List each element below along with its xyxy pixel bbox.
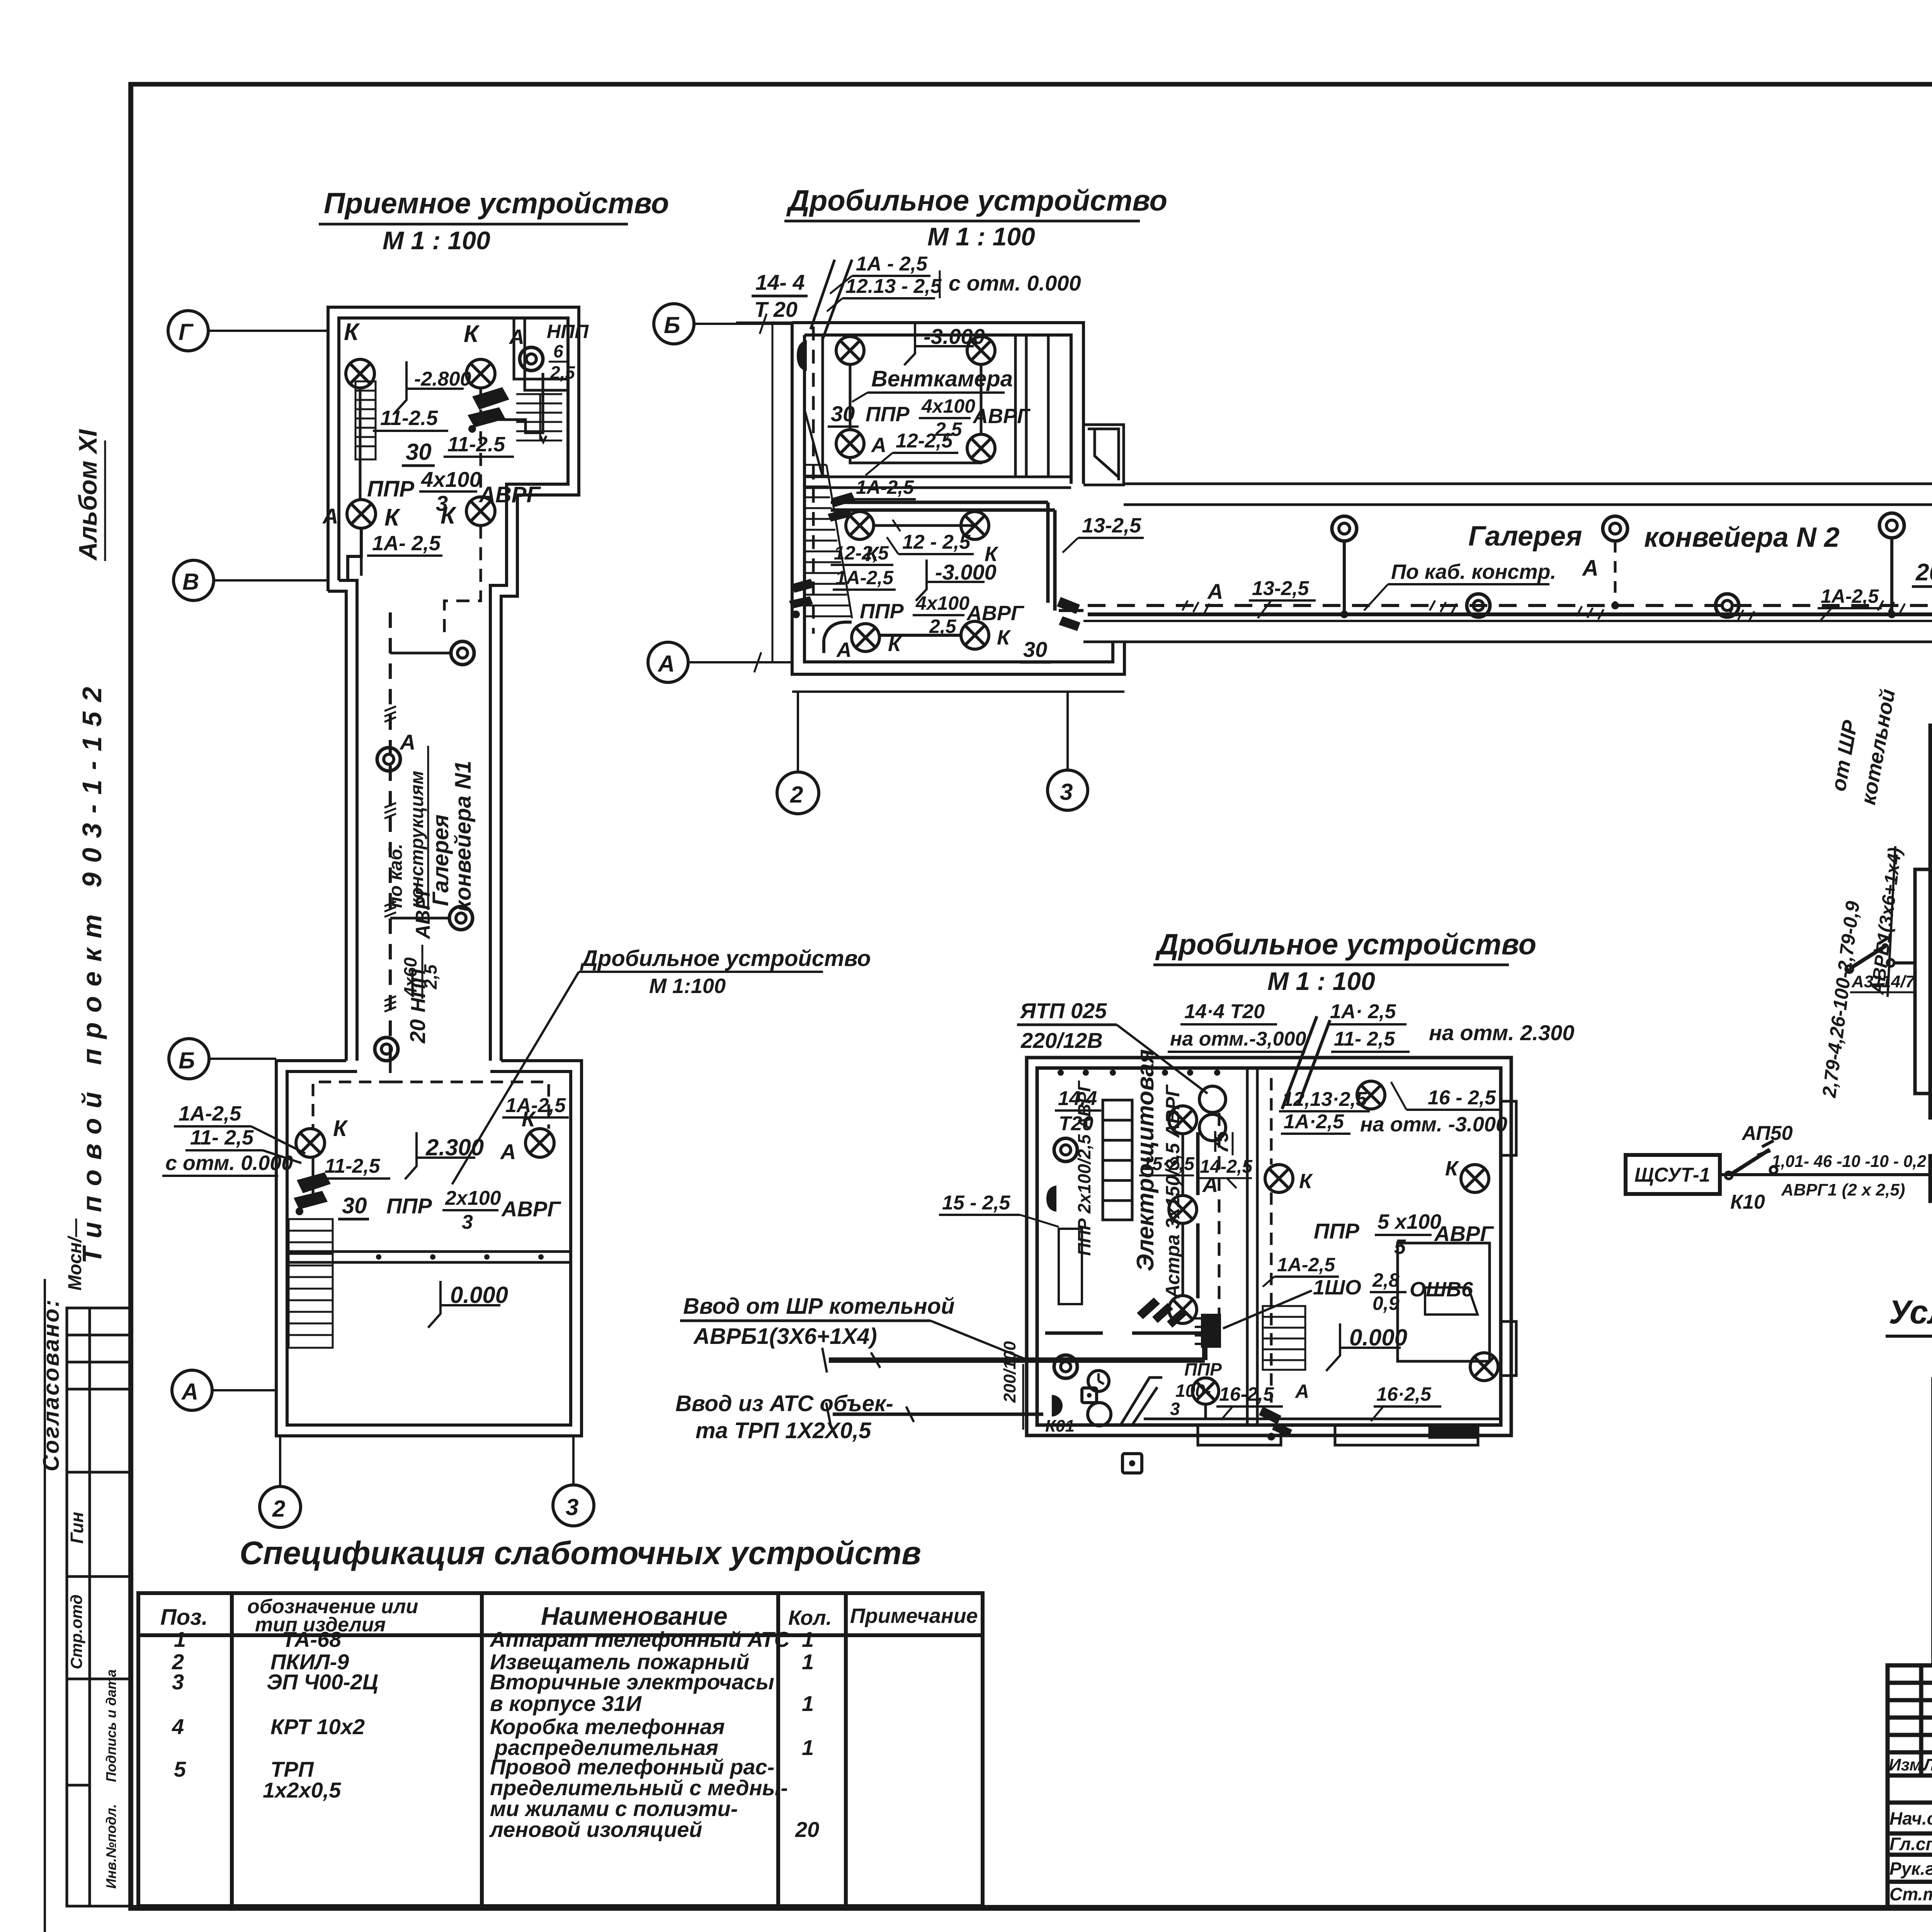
svg-text:16-2,5: 16-2,5 xyxy=(1219,1383,1274,1405)
svg-text:30: 30 xyxy=(342,1193,367,1218)
lamp K lower-right xyxy=(466,497,495,526)
svg-text:16·2,5: 16·2,5 xyxy=(1376,1383,1432,1405)
wire switch scribbles bottom xyxy=(1259,1406,1292,1440)
node window right wall 1 xyxy=(1501,1101,1516,1376)
wire entry diagonals xyxy=(811,260,852,340)
node elevation -3.000 lower xyxy=(916,560,997,601)
svg-text:20: 20 xyxy=(1915,559,1932,586)
svg-text:Б: Б xyxy=(179,1048,195,1073)
svg-text:4х100: 4х100 xyxy=(421,467,481,492)
svg-text:1: 1 xyxy=(802,1627,814,1651)
svg-text:М 1 : 100: М 1 : 100 xyxy=(927,222,1035,251)
svg-text:16 - 2,5: 16 - 2,5 xyxy=(1428,1087,1496,1109)
svg-text:Примечание: Примечание xyxy=(850,1604,978,1628)
node dimension line Б-А xyxy=(772,324,774,662)
lamp K upper-left xyxy=(346,359,374,388)
node elevation -3.000 top xyxy=(904,323,985,365)
wall gallery bottom lines xyxy=(1083,620,1932,622)
wire switch scribbles left room xyxy=(1137,1298,1187,1328)
svg-text:1,01- 46 -10 -10 - 0,2: 1,01- 46 -10 -10 - 0,2 xyxy=(1772,1152,1927,1171)
svg-text:11-2.5: 11-2.5 xyxy=(447,433,505,456)
node square symbol below xyxy=(1122,1454,1142,1473)
wall lower interior floor xyxy=(287,1252,571,1262)
node label ЯТП 025 220/12В xyxy=(1017,998,1207,1094)
svg-text:АВРГ: АВРГ xyxy=(501,1197,561,1221)
svg-text:А: А xyxy=(500,1139,516,1164)
svg-text:А: А xyxy=(871,434,886,457)
panel schedule 1ЩО xyxy=(1626,665,1932,1213)
wire top border xyxy=(128,82,1932,87)
lamp device 3 xyxy=(449,906,473,930)
wire switch scribbles xyxy=(468,387,509,433)
svg-text:Наименование: Наименование xyxy=(541,1602,728,1630)
wire leader top labels xyxy=(830,276,852,294)
svg-text:А: А xyxy=(1207,579,1223,604)
svg-text:М 1 : 100: М 1 : 100 xyxy=(1267,967,1375,995)
svg-text:Инв.№подл.: Инв.№подл. xyxy=(103,1804,119,1889)
left margin annotations xyxy=(39,429,131,1932)
plan 3: Дробильное устройство center xyxy=(675,928,1574,1473)
svg-text:Галерея: Галерея xyxy=(1468,521,1582,552)
stamp boxes column xyxy=(67,1308,131,1906)
wire riser dashed left xyxy=(812,327,815,634)
wire dashed riser right xyxy=(480,388,482,497)
svg-text:Подпись и дата: Подпись и дата xyxy=(103,1669,119,1782)
wall lower building outer xyxy=(276,1061,582,1436)
lamp left room 1 xyxy=(1169,1106,1197,1134)
node column 3 xyxy=(553,1436,594,1526)
svg-text:М 1:100: М 1:100 xyxy=(649,975,726,998)
svg-text:Спецификация слаботочных: Спецификация слаботочных устройств xyxy=(240,1535,921,1571)
svg-text:5: 5 xyxy=(1394,1235,1406,1259)
node label 14-4 Т20 xyxy=(736,270,808,323)
svg-text:11-2.5: 11-2.5 xyxy=(380,406,438,430)
wall plan2 outer xyxy=(792,323,1124,674)
svg-text:1А-2,5: 1А-2,5 xyxy=(505,1094,566,1117)
node clock symbol xyxy=(1088,1371,1109,1391)
node door openings bottom xyxy=(1198,1425,1478,1445)
node label 1ШО 2,8/0,9 ОШВ6 xyxy=(1313,1269,1473,1314)
svg-text:А: А xyxy=(836,638,852,662)
gallery N1 vertical xyxy=(346,612,501,1061)
svg-text:Нач.отд.: Нач.отд. xyxy=(1889,1808,1932,1828)
svg-text:1А-2,5: 1А-2,5 xyxy=(1821,585,1879,607)
lamp bottom 3 xyxy=(1192,1378,1219,1404)
svg-text:14- 4: 14- 4 xyxy=(755,270,805,294)
svg-text:К: К xyxy=(1299,1170,1313,1193)
svg-text:1: 1 xyxy=(802,1650,814,1674)
svg-text:К: К xyxy=(464,321,480,347)
node circle device xyxy=(1088,1403,1111,1426)
svg-text:11- 2,5: 11- 2,5 xyxy=(190,1126,254,1149)
panel электрощитовая cells xyxy=(1103,1100,1132,1220)
svg-text:12-2,5: 12-2,5 xyxy=(896,430,953,452)
svg-text:Гл.спец.: Гл.спец. xyxy=(1889,1834,1932,1854)
lamp K left xyxy=(296,1129,325,1157)
svg-text:2,79-4,26-100-2,79-0,9: 2,79-4,26-100-2,79-0,9 xyxy=(1818,900,1864,1099)
svg-text:К10: К10 xyxy=(1730,1191,1765,1213)
node column Б xyxy=(169,1039,276,1079)
svg-text:1А-2,5: 1А-2,5 xyxy=(856,476,914,498)
node column Г xyxy=(168,311,328,351)
svg-text:4х60: 4х60 xyxy=(400,957,420,997)
svg-text:АВРГ1 (2 х 2,5): АВРГ1 (2 х 2,5) xyxy=(1781,1180,1905,1199)
node fire detector symbol xyxy=(1082,1388,1097,1403)
wire bottom right run xyxy=(1325,1418,1499,1420)
node label ППР 4х100/2,5 АВРГ lower xyxy=(860,592,1051,662)
wall plan3 outer xyxy=(1027,1058,1511,1435)
svg-text:2: 2 xyxy=(272,1496,285,1522)
wire from ЩСУТ-1 to row 11А xyxy=(1720,1122,1930,1213)
svg-text:НПП: НПП xyxy=(547,321,589,342)
svg-text:1А- 2,5: 1А- 2,5 xyxy=(372,532,441,555)
svg-text:та ТРП 1Х2Х0,5: та ТРП 1Х2Х0,5 xyxy=(696,1418,871,1443)
svg-text:14·4 Т20: 14·4 Т20 xyxy=(1184,1000,1265,1023)
svg-text:1х2х0,5: 1х2х0,5 xyxy=(263,1778,341,1802)
wall gallery top lines xyxy=(1124,483,1932,485)
svg-text:1ШО: 1ШО xyxy=(1313,1276,1361,1299)
svg-text:Дробильное устройство: Дробильное устройство xyxy=(580,946,871,971)
svg-text:1: 1 xyxy=(802,1691,814,1716)
node phone symbol black xyxy=(1052,1395,1063,1417)
wire dashed риser xyxy=(1218,1113,1221,1329)
wire lower jog xyxy=(360,556,363,576)
wire lamp run left solid xyxy=(359,388,362,500)
svg-text:А: А xyxy=(181,1379,198,1405)
lamp K right xyxy=(526,1129,554,1157)
svg-text:3: 3 xyxy=(172,1670,184,1694)
wire exit scribble xyxy=(1057,597,1080,631)
plan 1: Приемное устройство xyxy=(319,187,669,641)
breaker А3114/7 switch symbol xyxy=(1846,937,1917,992)
stairs plan3 xyxy=(1263,1306,1305,1370)
svg-text:3: 3 xyxy=(566,1494,578,1520)
node column 2 plan2 xyxy=(777,692,819,814)
svg-text:Поз.: Поз. xyxy=(160,1605,208,1630)
svg-text:К: К xyxy=(997,626,1011,649)
wire callout to ЩО xyxy=(1223,1291,1312,1328)
wire to НПП xyxy=(498,373,543,433)
svg-text:Венткамера: Венткамера xyxy=(871,366,1013,391)
svg-text:Ст.техн.: Ст.техн. xyxy=(1889,1884,1932,1904)
node callout Дробильное устройство xyxy=(452,946,871,1184)
spec header xyxy=(160,1595,978,1636)
node label 20 НПП 10х60/2,5 АВРГ xyxy=(1912,553,1932,599)
svg-text:Б: Б xyxy=(664,312,680,338)
node label ППР 4х100/3 АВРГ xyxy=(367,467,541,515)
node label 14-4Т20 на отм -3000 xyxy=(1168,1000,1306,1052)
node elevation -2.800 xyxy=(395,361,471,413)
node column 3 plan2 xyxy=(1048,692,1088,810)
svg-text:Лист: Лист xyxy=(1922,1755,1932,1774)
wire hash marks xyxy=(384,706,396,1012)
svg-text:котельной: котельной xyxy=(1857,687,1900,806)
svg-text:А: А xyxy=(399,730,415,754)
wire lower bottom run xyxy=(824,622,961,653)
svg-text:ППР: ППР xyxy=(1314,1219,1360,1243)
svg-text:2: 2 xyxy=(790,782,803,808)
svg-text:2х100: 2х100 xyxy=(445,1187,501,1209)
svg-text:-2.800: -2.800 xyxy=(414,368,471,390)
svg-text:Дробильное устройство: Дробильное устройство xyxy=(786,184,1167,217)
spec grid xyxy=(138,1593,983,1906)
panel ЩСУТ-1 box xyxy=(1626,1155,1720,1194)
lamp lower SE xyxy=(961,621,989,649)
wall footprint bottom line xyxy=(792,690,1124,693)
lamp venткамера NW xyxy=(836,337,864,364)
svg-text:12.13 - 2,5: 12.13 - 2,5 xyxy=(845,275,942,298)
wire gallery cable solid xyxy=(1088,612,1932,616)
svg-text:Альбом XI: Альбом XI xyxy=(73,429,102,561)
svg-text:15 - 2,5: 15 - 2,5 xyxy=(942,1192,1010,1214)
svg-text:11-2,5: 11-2,5 xyxy=(325,1155,381,1177)
wall gallery left xyxy=(345,641,348,1061)
gallery N2 horizontal xyxy=(1083,484,1932,642)
panel ЩО black xyxy=(1195,1314,1221,1348)
wire gallery cable dashed xyxy=(1088,604,1932,607)
stairs plan2 left xyxy=(804,410,852,618)
lamp device double circle xyxy=(1054,1355,1077,1378)
svg-text:Гин: Гин xyxy=(67,1512,87,1544)
svg-text:12,13·2,5: 12,13·2,5 xyxy=(1282,1088,1367,1111)
wall upper building partition НПП room xyxy=(514,318,568,390)
switch symbol АП50 xyxy=(1730,1150,1770,1175)
svg-text:2,5: 2,5 xyxy=(550,362,575,383)
svg-text:А: А xyxy=(1294,1381,1309,1402)
wall door chamfer xyxy=(1121,1378,1162,1425)
svg-text:2,5: 2,5 xyxy=(420,964,440,990)
wall upper building outer xyxy=(328,307,579,641)
svg-text:К: К xyxy=(1445,1157,1459,1180)
legend table xyxy=(1886,1294,1932,1665)
node small rect left room xyxy=(1059,1229,1082,1304)
schedule grid xyxy=(1930,726,1932,1117)
svg-text:Кол.: Кол. xyxy=(788,1606,832,1629)
wire lamp run left lower xyxy=(348,528,361,580)
svg-text:75: 75 xyxy=(1210,1131,1233,1153)
node column Б plan2 xyxy=(654,304,792,344)
lower building Дробильное xyxy=(162,1061,582,1436)
svg-text:К: К xyxy=(384,504,401,531)
svg-text:1А·2,5: 1А·2,5 xyxy=(1284,1111,1344,1133)
svg-text:ЯТП 025: ЯТП 025 xyxy=(1019,998,1107,1023)
svg-text:Рук.гр.: Рук.гр. xyxy=(1889,1859,1932,1879)
wire ATC line xyxy=(826,1403,1043,1426)
svg-text:АВРБ1(3Х6+1Х4): АВРБ1(3Х6+1Х4) xyxy=(693,1324,877,1349)
svg-text:6: 6 xyxy=(553,341,563,361)
column circles plan1 xyxy=(168,311,594,1527)
svg-text:3: 3 xyxy=(1170,1399,1180,1419)
lamp gallery online 1 xyxy=(1467,594,1490,617)
svg-text:леновой изоляцией: леновой изоляцией xyxy=(489,1817,702,1842)
svg-text:20: 20 xyxy=(795,1817,819,1842)
wire lamp bottom stem xyxy=(1182,1404,1206,1419)
svg-text:13-2,5: 13-2,5 xyxy=(1082,514,1141,537)
title block grid xyxy=(1888,1665,1932,1907)
svg-text:30: 30 xyxy=(1023,637,1047,662)
node floor dots xyxy=(376,1254,544,1260)
paper edge line xyxy=(44,1279,46,1932)
svg-text:Приемное устройство: Приемное устройство xyxy=(324,187,669,220)
lamp venткамера NE xyxy=(967,337,995,364)
svg-text:2,8: 2,8 xyxy=(1372,1269,1400,1291)
lamp K upper-right xyxy=(466,359,495,388)
schedule row 11A xyxy=(1930,1156,1932,1201)
svg-text:Согласовано:: Согласовано: xyxy=(39,1298,64,1471)
node label 30 ППР 4х100/2,5 АВРГ xyxy=(828,395,1031,440)
svg-text:ТА-68: ТА-68 xyxy=(282,1627,342,1651)
svg-text:Дробильное устройство: Дробильное устройство xyxy=(1155,928,1536,961)
svg-text:на отм.-3,000: на отм.-3,000 xyxy=(1170,1028,1306,1050)
wire heavy run lower room xyxy=(831,502,1055,611)
node stamp header xyxy=(1889,1755,1932,1774)
svg-text:Ввод от ШР котельной: Ввод от ШР котельной xyxy=(683,1294,955,1319)
svg-text:Г: Г xyxy=(179,319,194,345)
svg-text:20: 20 xyxy=(405,1019,430,1044)
svg-text:ППР: ППР xyxy=(1184,1359,1222,1379)
svg-text:30: 30 xyxy=(831,401,855,426)
svg-text:Т 20: Т 20 xyxy=(754,297,798,321)
wire gallery cable dashed xyxy=(389,612,392,1061)
column circles plan2 xyxy=(648,304,1088,814)
svg-text:А: А xyxy=(322,504,338,528)
wire right room dashed riser xyxy=(1270,1078,1273,1403)
node interior rect right room xyxy=(1398,1243,1490,1361)
svg-text:по каб.: по каб. xyxy=(386,844,406,908)
title block xyxy=(1888,1665,1932,1907)
svg-text:По каб. констр.: По каб. констр. xyxy=(1391,560,1556,583)
svg-text:А: А xyxy=(509,325,524,349)
svg-text:АП50: АП50 xyxy=(1741,1122,1793,1145)
wire switch blobs top xyxy=(789,340,855,618)
svg-text:3: 3 xyxy=(462,1211,473,1233)
lamp device 1 xyxy=(451,641,474,665)
node top wall dots xyxy=(1058,1070,1220,1076)
svg-text:Аппарат телефонный АТС: Аппарат телефонный АТС xyxy=(489,1627,790,1651)
lamp НПП ceiling xyxy=(520,347,543,371)
lamp device 2 xyxy=(377,748,400,771)
svg-text:на отм. -3.000: на отм. -3.000 xyxy=(1360,1113,1507,1136)
node elevation 0.000 xyxy=(428,1281,508,1328)
svg-text:ППР: ППР xyxy=(866,403,910,426)
wire right room riser xyxy=(1059,609,1083,612)
lamp venткамера SW xyxy=(836,430,864,457)
lamp right room bottom xyxy=(1470,1353,1498,1381)
svg-text:3: 3 xyxy=(436,491,448,515)
svg-text:К: К xyxy=(333,1116,348,1141)
lamp right room К left xyxy=(1265,1165,1293,1192)
wall plan3 partition xyxy=(1247,1068,1257,1425)
svg-text:15·2,5: 15·2,5 xyxy=(1142,1154,1195,1174)
svg-text:-3.000: -3.000 xyxy=(923,324,985,349)
svg-text:А3114/7: А3114/7 xyxy=(1851,972,1916,991)
lamp gallery stem 3 xyxy=(1879,513,1904,618)
svg-text:4: 4 xyxy=(172,1714,184,1739)
svg-text:ЩСУТ-1: ЩСУТ-1 xyxy=(1634,1164,1710,1186)
svg-text:Мосн/—: Мосн/— xyxy=(65,1218,85,1291)
svg-text:В: В xyxy=(182,569,199,595)
lamp right room top xyxy=(1357,1081,1385,1109)
wire top entry diagonals plan3 xyxy=(1282,1016,1330,1109)
lamp lower room NW xyxy=(846,512,874,539)
svg-text:5: 5 xyxy=(174,1757,186,1781)
svg-text:30: 30 xyxy=(406,439,432,465)
svg-text:Вторичные электрочасы: Вторичные электрочасы xyxy=(490,1670,774,1694)
node outside labels 1А-2.5 11-2.5 с отм 0.000 xyxy=(162,1102,305,1176)
wire black blob xyxy=(1046,1185,1056,1212)
svg-text:ППР: ППР xyxy=(860,600,904,623)
svg-text:Изм.: Изм. xyxy=(1889,1755,1927,1774)
svg-text:с отм. 0.000: с отм. 0.000 xyxy=(949,271,1081,295)
svg-text:в корпусе 31И: в корпусе 31И xyxy=(490,1691,642,1716)
wall gallery right xyxy=(500,641,503,1061)
svg-text:0.000: 0.000 xyxy=(450,1282,508,1308)
svg-text:1А - 2,5: 1А - 2,5 xyxy=(856,253,928,275)
svg-text:1А-2,5: 1А-2,5 xyxy=(835,567,894,588)
svg-text:1А-2,5: 1А-2,5 xyxy=(1277,1254,1335,1276)
lamp яvтп circles xyxy=(1199,1086,1226,1141)
svg-text:3: 3 xyxy=(1060,779,1073,805)
svg-text:А: А xyxy=(1582,556,1599,581)
node column А plan2 xyxy=(648,642,792,682)
lamp lower SW xyxy=(852,624,879,651)
stairs upper right xyxy=(516,394,562,440)
svg-text:ППР: ППР xyxy=(367,476,414,502)
wire bottom border xyxy=(128,1905,1932,1911)
node column А xyxy=(172,1370,276,1410)
svg-text:14-2,5: 14-2,5 xyxy=(1200,1156,1253,1177)
wire lower room top xyxy=(874,524,975,527)
svg-text:13-2,5: 13-2,5 xyxy=(1252,577,1310,600)
wire left room risers xyxy=(1045,1132,1213,1333)
svg-text:А: А xyxy=(657,651,675,677)
svg-text:АВРГ: АВРГ xyxy=(412,883,434,940)
svg-text:конвейера N1: конвейера N1 xyxy=(451,761,476,912)
lamp gallery online 2 xyxy=(1716,594,1739,617)
svg-text:200/100: 200/100 xyxy=(1000,1341,1019,1403)
wire hash marks gallery xyxy=(1182,600,1932,621)
lamp gallery stem 2 dashed xyxy=(1603,516,1628,609)
svg-text:ППР: ППР xyxy=(386,1194,432,1218)
svg-text:конвейера N 2: конвейера N 2 xyxy=(1644,522,1840,553)
specification table xyxy=(138,1535,983,1906)
wire bottom run xyxy=(1144,1418,1325,1420)
lamp venткамера SE xyxy=(967,434,995,462)
lamp K lower-left xyxy=(347,500,376,528)
lamp right room К right xyxy=(1461,1165,1489,1192)
svg-text:4х100: 4х100 xyxy=(921,395,975,417)
svg-text:1А-2,5: 1А-2,5 xyxy=(179,1102,241,1125)
stairs upper left run xyxy=(355,381,376,459)
node label ППР 5х100/5 АВРГ xyxy=(1314,1210,1494,1259)
plan 2: Дробильное устройство top xyxy=(736,184,1167,674)
node stamp roles xyxy=(1889,1808,1932,1904)
wire feeder bracket xyxy=(1915,869,1930,1094)
node elevation 2.300 xyxy=(405,1132,484,1179)
svg-text:КРТ 10х2: КРТ 10х2 xyxy=(270,1714,365,1739)
svg-text:1: 1 xyxy=(802,1735,814,1760)
wire feeder ШР heavy xyxy=(822,1336,1205,1372)
svg-text:АВРГ: АВРГ xyxy=(972,405,1031,428)
svg-text:Условные обозначения слаботочн: Условные обозначения слаботочных устройс… xyxy=(1889,1294,1932,1331)
svg-text:12 - 2,5: 12 - 2,5 xyxy=(902,531,971,553)
lamp device 4 xyxy=(375,1037,398,1061)
node column 2 xyxy=(260,1436,301,1527)
svg-text:М 1 : 100: М 1 : 100 xyxy=(383,226,490,255)
node column В xyxy=(173,560,328,600)
wire left border xyxy=(128,82,133,1911)
svg-text:ЭП Ч00-2Ц: ЭП Ч00-2Ц xyxy=(267,1670,378,1694)
